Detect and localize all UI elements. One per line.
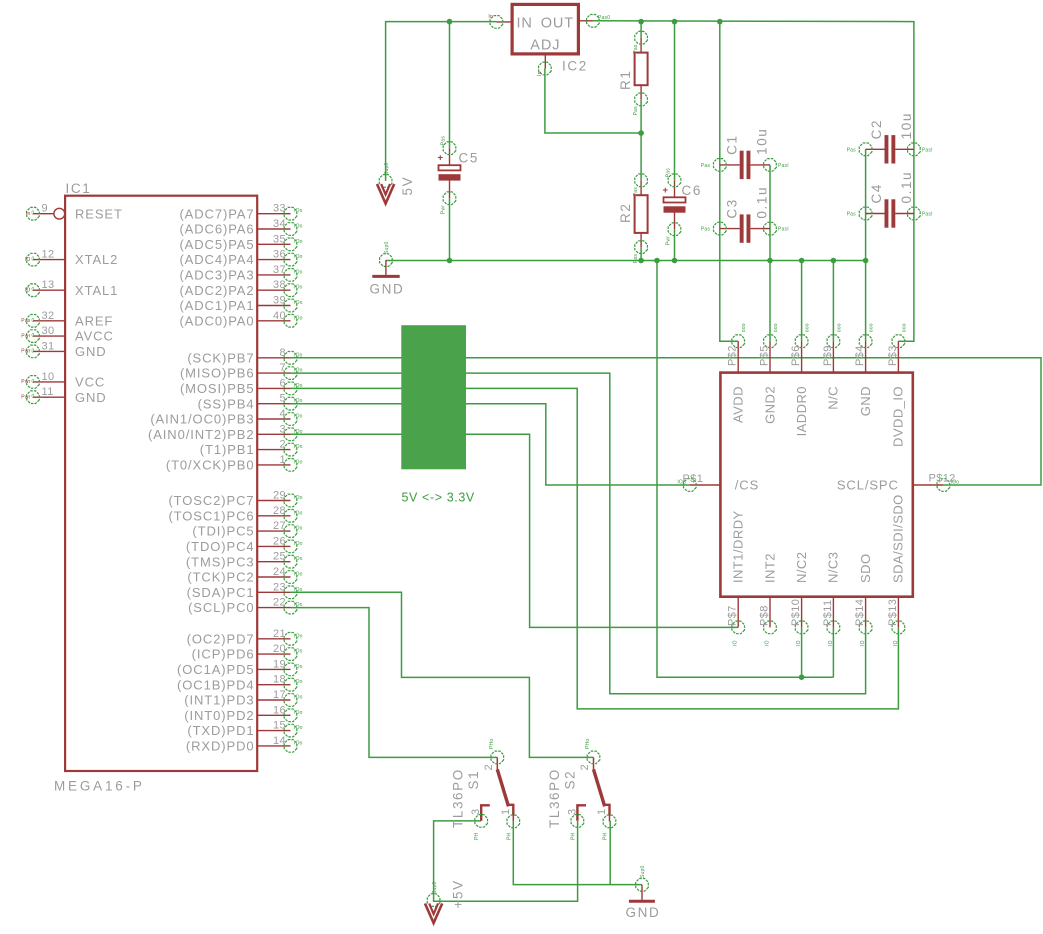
svg-text:N/C2: N/C2 bbox=[794, 552, 809, 583]
label GND (bottom right) bbox=[626, 905, 661, 920]
svg-text:(ADC7)PA7: (ADC7)PA7 bbox=[179, 206, 254, 221]
wire net GND: C2/C4 left rail down to sensor GND pin bbox=[865, 149, 867, 341]
svg-text:ooo: ooo bbox=[741, 323, 747, 332]
pin P$14 SDO of sensor (bottom) bbox=[854, 553, 873, 646]
pin 30 AVCC of IC1 (left) bbox=[21, 325, 113, 344]
capacitor C6 electrolytic bbox=[662, 168, 685, 245]
svg-text:C1: C1 bbox=[724, 134, 739, 154]
svg-text:AVCC: AVCC bbox=[75, 329, 114, 344]
svg-text:AVDD: AVDD bbox=[731, 386, 746, 423]
svg-text:+5V: +5V bbox=[451, 879, 466, 908]
svg-text:IOo: IOo bbox=[294, 526, 303, 532]
svg-text:ooo: ooo bbox=[901, 323, 907, 332]
svg-text:0: 0 bbox=[32, 318, 35, 324]
svg-text:GND: GND bbox=[75, 344, 107, 359]
svg-text:IC1: IC1 bbox=[66, 181, 92, 196]
svg-text:IOo: IOo bbox=[294, 710, 303, 716]
svg-text:IO: IO bbox=[796, 640, 802, 646]
pin 9 RESET of IC1 (left) bbox=[26, 203, 123, 222]
pin 24 (TCK)PC2 of IC1 (right) bbox=[187, 566, 302, 585]
pin P$4 GND of sensor (top) bbox=[854, 323, 875, 416]
svg-text:IOo: IOo bbox=[294, 572, 303, 578]
wire net 3V3: riser to R1 top bbox=[640, 22, 642, 38]
pin 13 XTAL1 of IC1 (left) bbox=[25, 279, 118, 298]
svg-text:INT1/DRDY: INT1/DRDY bbox=[731, 510, 746, 583]
svg-text:In: In bbox=[537, 71, 543, 76]
pin 39 (ADC1)PA1 of IC1 (right) bbox=[179, 295, 302, 314]
svg-text:GND: GND bbox=[858, 386, 873, 416]
svg-text:IOo: IOo bbox=[294, 398, 303, 404]
wire net 3V3: riser to C6 + bbox=[674, 22, 676, 181]
svg-text:IOo: IOo bbox=[294, 602, 303, 608]
label C4 value 0.1u bbox=[899, 171, 914, 204]
pin P$1 /CS of sensor (left) bbox=[677, 473, 759, 493]
pin 31 GND of IC1 (left) bbox=[21, 340, 106, 359]
svg-text:IOo: IOo bbox=[294, 414, 303, 420]
svg-text:IO: IO bbox=[25, 257, 31, 263]
svg-text:0: 0 bbox=[32, 333, 35, 339]
svg-text:IOo: IOo bbox=[294, 679, 303, 685]
pin 38 (ADC2)PA2 of IC1 (right) bbox=[179, 279, 302, 298]
svg-text:Sup0: Sup0 bbox=[384, 163, 390, 175]
svg-text:GND: GND bbox=[75, 390, 107, 405]
svg-text:(ADC6)PA6: (ADC6)PA6 bbox=[179, 222, 254, 237]
svg-text:Pas: Pas bbox=[441, 136, 447, 146]
wire net GND: C5 bottom riser bbox=[449, 198, 451, 260]
wire net GND: IADDR0 riser bbox=[801, 261, 803, 342]
svg-text:OUT: OUT bbox=[541, 16, 574, 32]
pin 16 (INT0)PD2 of IC1 (right) bbox=[184, 704, 302, 723]
svg-text:ooo: ooo bbox=[805, 323, 811, 332]
junction node GND/IADDR0 bbox=[799, 258, 805, 264]
label C2 reference bbox=[869, 119, 884, 139]
svg-text:(T0/XCK)PB0: (T0/XCK)PB0 bbox=[166, 458, 255, 473]
label C3 value 0.1u bbox=[754, 186, 769, 219]
svg-text:33: 33 bbox=[273, 203, 286, 215]
wire net SCL: IC1 PC0 to switch S1 pin2 bbox=[291, 608, 498, 758]
svg-text:P$6: P$6 bbox=[790, 345, 802, 366]
label C1 value 10u bbox=[754, 128, 769, 155]
wire net GND: C1/C3 right rail to sensor GND2 bbox=[769, 165, 771, 341]
svg-text:(SCL)PC0: (SCL)PC0 bbox=[188, 600, 254, 615]
wire net 5V: input rail from 5V supply to IC2 IN and C5 top bbox=[386, 22, 497, 181]
svg-text:SDA/SDI/SDO: SDA/SDI/SDO bbox=[891, 494, 906, 583]
svg-text:24: 24 bbox=[273, 566, 286, 578]
svg-text:/CS: /CS bbox=[735, 478, 759, 493]
svg-text:10u: 10u bbox=[899, 112, 914, 139]
supply +5V arrow (bottom) bbox=[425, 882, 442, 923]
svg-text:GND2: GND2 bbox=[762, 386, 777, 424]
svg-text:P$4: P$4 bbox=[854, 345, 866, 366]
svg-text:SCL/SPC: SCL/SPC bbox=[837, 478, 899, 493]
svg-text:(TOSC1)PC6: (TOSC1)PC6 bbox=[168, 508, 254, 523]
svg-text:(AIN0/INT2)PB2: (AIN0/INT2)PB2 bbox=[148, 427, 255, 442]
svg-text:Pwr: Pwr bbox=[21, 333, 30, 339]
label IC2 reference bbox=[562, 59, 588, 74]
svg-text:S1: S1 bbox=[466, 770, 481, 790]
svg-text:3: 3 bbox=[470, 808, 482, 815]
svg-text:IO: IO bbox=[733, 640, 739, 646]
svg-text:21: 21 bbox=[273, 628, 286, 640]
wire net MOSI: IC1 PB5 to sensor SDA/SDI/SDO bbox=[291, 388, 899, 709]
svg-text:4: 4 bbox=[279, 408, 286, 420]
svg-text:2: 2 bbox=[483, 764, 495, 771]
svg-text:40: 40 bbox=[273, 310, 286, 322]
svg-text:16: 16 bbox=[273, 704, 286, 716]
svg-text:28: 28 bbox=[273, 505, 286, 517]
svg-text:IO: IO bbox=[25, 287, 31, 293]
svg-text:14: 14 bbox=[273, 735, 286, 747]
svg-text:ADJ: ADJ bbox=[530, 38, 560, 54]
pin P$3 DVDD_IO of sensor (top) bbox=[887, 323, 908, 447]
svg-text:IOo: IOo bbox=[294, 368, 303, 374]
svg-text:PHo: PHo bbox=[585, 739, 591, 749]
wire net GND: drop to sensor N/C2 N/C3 pins bbox=[657, 261, 833, 678]
svg-text:IOo: IOo bbox=[294, 239, 303, 245]
label +5V bbox=[451, 879, 466, 908]
junction node 3V3/C6 bbox=[672, 19, 678, 25]
svg-text:18: 18 bbox=[273, 674, 286, 686]
wire net GND: N/C riser bbox=[832, 261, 834, 342]
svg-text:P$7: P$7 bbox=[727, 605, 739, 626]
svg-text:IO: IO bbox=[765, 640, 771, 646]
svg-text:P$3: P$3 bbox=[887, 345, 899, 366]
svg-text:(ADC5)PA5: (ADC5)PA5 bbox=[179, 237, 254, 252]
svg-text:S2: S2 bbox=[562, 770, 577, 790]
svg-text:Pwr: Pwr bbox=[441, 205, 447, 214]
svg-text:IOo: IOo bbox=[294, 429, 303, 435]
svg-text:IOo: IOo bbox=[294, 725, 303, 731]
ic U IC1 MEGA16-P body bbox=[65, 196, 257, 771]
svg-text:IOo: IOo bbox=[294, 541, 303, 547]
wire net ADJ: R1 bottom to R2 top bbox=[640, 99, 642, 180]
wire net SS: IC1 PB4 to sensor /CS bbox=[291, 404, 690, 485]
pin 2 (T1)PB1 of IC1 (right) bbox=[200, 439, 303, 458]
svg-text:P$10: P$10 bbox=[790, 599, 802, 626]
svg-text:37: 37 bbox=[273, 264, 286, 276]
ground GND symbol (bottom right) bbox=[629, 866, 655, 902]
svg-text:XTAL1: XTAL1 bbox=[75, 283, 118, 298]
wire net 3V3: AVDD rail down to sensor AVDD through C1 left bbox=[720, 22, 738, 342]
wire net SCK: IC1 PB7 to sensor SCL/SPC around right edge bbox=[291, 358, 1042, 485]
svg-text:(TDO)PC4: (TDO)PC4 bbox=[186, 539, 255, 554]
resistor R2 bbox=[633, 174, 648, 263]
junction node 3V3/R1 bbox=[638, 19, 644, 25]
svg-text:0.1u: 0.1u bbox=[899, 171, 914, 204]
svg-text:C5: C5 bbox=[459, 151, 479, 166]
svg-text:P$2: P$2 bbox=[727, 345, 739, 366]
svg-text:IOo: IOo bbox=[294, 224, 303, 230]
svg-text:1: 1 bbox=[596, 808, 608, 815]
svg-text:R1: R1 bbox=[618, 70, 633, 90]
svg-text:IADDR0: IADDR0 bbox=[794, 386, 809, 436]
svg-text:Sup0: Sup0 bbox=[384, 242, 390, 254]
label 5V bbox=[400, 176, 415, 196]
svg-text:23: 23 bbox=[273, 581, 286, 593]
svg-text:IOo: IOo bbox=[294, 208, 303, 214]
label S1 reference bbox=[466, 770, 481, 790]
svg-text:IOo: IOo bbox=[294, 254, 303, 260]
svg-text:INT2: INT2 bbox=[762, 553, 777, 583]
svg-text:P$5: P$5 bbox=[759, 345, 771, 366]
svg-text:22: 22 bbox=[273, 597, 286, 609]
svg-text:PH: PH bbox=[506, 832, 512, 840]
svg-text:(OC2)PD7: (OC2)PD7 bbox=[187, 631, 255, 646]
svg-text:10: 10 bbox=[42, 371, 55, 383]
svg-text:TL36PO: TL36PO bbox=[547, 768, 562, 828]
pin 4 (AIN1/OC0)PB3 of IC1 (right) bbox=[150, 408, 302, 427]
svg-text:13: 13 bbox=[42, 279, 55, 291]
svg-text:0: 0 bbox=[32, 211, 35, 217]
svg-text:(TCK)PC2: (TCK)PC2 bbox=[187, 570, 254, 585]
svg-text:IO: IO bbox=[860, 640, 866, 646]
svg-text:P$13: P$13 bbox=[887, 599, 899, 626]
wire net INT: IC1 PB2 to sensor INT1/DRDY bbox=[291, 434, 739, 627]
junction node GND/GND2 rail bbox=[767, 258, 773, 264]
label R2 reference bbox=[618, 203, 633, 223]
svg-text:0: 0 bbox=[32, 379, 35, 385]
svg-text:ooo: ooo bbox=[836, 323, 842, 332]
svg-text:(ADC3)PA3: (ADC3)PA3 bbox=[179, 268, 254, 283]
junction node ADJ divider bbox=[638, 130, 644, 136]
junction node GND/C5 bbox=[447, 258, 453, 264]
svg-text:Pwr: Pwr bbox=[21, 379, 30, 385]
wire net SDA: IC1 PC1 to switch S2 pin2 bbox=[291, 592, 594, 757]
svg-text:Pas: Pas bbox=[633, 187, 639, 197]
svg-text:IOo: IOo bbox=[294, 383, 303, 389]
svg-text:7: 7 bbox=[279, 362, 286, 374]
label IC1 reference bbox=[66, 181, 92, 196]
svg-text:5V <-> 3.3V: 5V <-> 3.3V bbox=[402, 491, 475, 505]
pin P$6 IADDR0 of sensor (top) bbox=[790, 323, 811, 436]
svg-text:(ADC0)PA0: (ADC0)PA0 bbox=[179, 313, 254, 328]
junction node GND/NC2 bbox=[799, 674, 805, 680]
junction node GND/R2 bbox=[638, 258, 644, 264]
ic U2 sensor body bbox=[720, 373, 912, 597]
label C5 reference bbox=[459, 151, 479, 166]
svg-text:0.1u: 0.1u bbox=[754, 186, 769, 219]
svg-text:PH: PH bbox=[570, 832, 576, 840]
pin 28 (TOSC1)PC6 of IC1 (right) bbox=[168, 505, 302, 524]
svg-text:(AIN1/OC0)PB3: (AIN1/OC0)PB3 bbox=[150, 412, 254, 427]
svg-text:19: 19 bbox=[273, 658, 286, 670]
svg-text:25: 25 bbox=[273, 551, 286, 563]
pin 10 VCC of IC1 (left) bbox=[21, 371, 105, 390]
svg-text:R2: R2 bbox=[618, 203, 633, 223]
pin P$13 SDA/SDI/SDO of sensor (bottom) bbox=[887, 494, 906, 646]
wire net MISO: IC1 PB6 to sensor SDO bbox=[291, 373, 866, 694]
wire net GND: horizontal ground bus bbox=[386, 260, 866, 262]
svg-text:IC2: IC2 bbox=[562, 59, 588, 74]
svg-text:(TXD)PD1: (TXD)PD1 bbox=[187, 723, 254, 738]
svg-text:PasI: PasI bbox=[778, 163, 789, 169]
svg-text:38: 38 bbox=[273, 279, 286, 291]
pin 6 (MOSI)PB5 of IC1 (right) bbox=[180, 377, 303, 396]
pin 11 GND of IC1 (left) bbox=[21, 386, 106, 405]
label R1 reference bbox=[618, 70, 633, 90]
svg-text:Sup0: Sup0 bbox=[640, 866, 646, 878]
wire net GND2: S1 pin1 and S2 pin1 to GND symbol bbox=[513, 821, 642, 885]
svg-text:IOo: IOo bbox=[294, 315, 303, 321]
pin 37 (ADC3)PA3 of IC1 (right) bbox=[179, 264, 302, 283]
svg-text:27: 27 bbox=[273, 520, 286, 532]
svg-text:ooo: ooo bbox=[869, 323, 875, 332]
svg-text:IOo: IOo bbox=[294, 633, 303, 639]
svg-text:N/C3: N/C3 bbox=[826, 552, 841, 583]
svg-text:IOo: IOo bbox=[294, 444, 303, 450]
svg-text:IOo: IOo bbox=[294, 285, 303, 291]
junction node 5V at C5 riser bbox=[447, 19, 453, 25]
svg-text:Pas: Pas bbox=[701, 227, 711, 233]
svg-text:(OC1A)PD5: (OC1A)PD5 bbox=[177, 662, 254, 677]
level shifter block 5V to 3.3V bbox=[401, 325, 466, 469]
svg-text:10u: 10u bbox=[754, 128, 769, 155]
label IC1 value MEGA16-P bbox=[54, 779, 145, 794]
switch S1 TL36PO bbox=[470, 739, 519, 840]
pin 36 (ADC4)PA4 of IC1 (right) bbox=[179, 249, 302, 268]
pin 3 (AIN0/INT2)PB2 of IC1 (right) bbox=[148, 423, 303, 442]
svg-text:IOo: IOo bbox=[294, 664, 303, 670]
wire net GND: C6 bottom riser bbox=[674, 229, 676, 260]
label S1 value TL36PO bbox=[451, 768, 466, 828]
svg-text:0: 0 bbox=[32, 257, 35, 263]
svg-text:PH: PH bbox=[603, 832, 609, 840]
pin 8 (SCK)PB7 of IC1 (right) bbox=[187, 347, 302, 366]
svg-text:C2: C2 bbox=[869, 119, 884, 139]
pin 14 (RXD)PD0 of IC1 (right) bbox=[186, 735, 303, 754]
svg-text:39: 39 bbox=[273, 295, 286, 307]
svg-text:PasI: PasI bbox=[778, 227, 789, 233]
svg-text:VCC: VCC bbox=[75, 375, 105, 390]
svg-text:IOo: IOo bbox=[294, 269, 303, 275]
svg-text:(SCK)PB7: (SCK)PB7 bbox=[187, 350, 254, 365]
svg-text:N/C: N/C bbox=[826, 386, 841, 410]
ic IC2 voltage regulator body bbox=[512, 4, 578, 54]
svg-text:(T1)PB1: (T1)PB1 bbox=[200, 442, 255, 457]
junction node GND/C6 bbox=[672, 258, 678, 264]
svg-text:(ADC1)PA1: (ADC1)PA1 bbox=[179, 298, 254, 313]
svg-text:Pas0: Pas0 bbox=[598, 15, 610, 21]
pin P$2 AVDD of sensor (top) bbox=[727, 323, 748, 423]
pin 17 (INT1)PD3 of IC1 (right) bbox=[184, 689, 302, 708]
pin 27 (TDI)PC5 of IC1 (right) bbox=[192, 520, 302, 539]
svg-text:C4: C4 bbox=[869, 183, 884, 203]
svg-text:IOo: IOo bbox=[294, 587, 303, 593]
label GND (top left) bbox=[370, 282, 405, 297]
capacitor C1 10u bbox=[701, 151, 789, 179]
svg-text:26: 26 bbox=[273, 535, 286, 547]
pin 18 (OC1B)PD4 of IC1 (right) bbox=[177, 674, 303, 693]
svg-text:IOo: IOo bbox=[294, 649, 303, 655]
capacitor C4 0.1u bbox=[847, 199, 933, 227]
svg-text:(ICP)PD6: (ICP)PD6 bbox=[192, 647, 255, 662]
capacitor C5 electrolytic bbox=[437, 136, 460, 215]
svg-text:0: 0 bbox=[32, 394, 35, 400]
svg-text:(RXD)PD0: (RXD)PD0 bbox=[186, 739, 255, 754]
capacitor C3 0.1u bbox=[701, 214, 789, 242]
svg-text:20: 20 bbox=[273, 643, 286, 655]
pin 33 (ADC7)PA7 of IC1 (right) bbox=[179, 203, 302, 222]
svg-text:IN: IN bbox=[517, 16, 533, 32]
svg-text:11: 11 bbox=[42, 386, 54, 398]
svg-text:PHo: PHo bbox=[489, 739, 495, 749]
svg-text:30: 30 bbox=[42, 325, 55, 337]
svg-text:15: 15 bbox=[273, 720, 286, 732]
ground GND symbol (top left) bbox=[372, 242, 399, 277]
svg-text:9: 9 bbox=[42, 203, 49, 215]
pin 1 (T0/XCK)PB0 of IC1 (right) bbox=[166, 454, 303, 473]
svg-text:Pas: Pas bbox=[633, 254, 639, 264]
label C6 reference bbox=[682, 183, 702, 198]
svg-text:IOo: IOo bbox=[294, 695, 303, 701]
pin ADJ of IC2 bbox=[530, 38, 560, 77]
svg-text:P$14: P$14 bbox=[854, 599, 866, 626]
svg-text:DVDD_IO: DVDD_IO bbox=[891, 386, 906, 447]
svg-text:Pwr: Pwr bbox=[21, 349, 30, 355]
wire net GND: R2 bottom riser bbox=[640, 247, 642, 260]
svg-text:P$8: P$8 bbox=[759, 605, 771, 626]
svg-text:2: 2 bbox=[279, 439, 286, 451]
svg-text:17: 17 bbox=[273, 689, 286, 701]
svg-text:Pwr: Pwr bbox=[666, 236, 672, 245]
junction node GND drop bbox=[654, 258, 660, 264]
pin 15 (TXD)PD1 of IC1 (right) bbox=[187, 720, 302, 739]
wire net ADJ: IC2 ADJ to R1/R2 divider bbox=[545, 69, 641, 134]
junction node 3V3/AVDD rail bbox=[717, 19, 723, 25]
label S2 value TL36PO bbox=[547, 768, 562, 828]
svg-text:AREF: AREF bbox=[75, 313, 113, 328]
svg-text:(TDI)PC5: (TDI)PC5 bbox=[192, 524, 254, 539]
svg-text:Sup0: Sup0 bbox=[432, 882, 438, 894]
svg-text:(OC1B)PD4: (OC1B)PD4 bbox=[177, 677, 254, 692]
svg-text:PasI: PasI bbox=[922, 212, 933, 218]
pin P$9 N/C of sensor (top) bbox=[822, 323, 843, 410]
svg-text:Pas: Pas bbox=[847, 212, 857, 218]
svg-text:36: 36 bbox=[273, 249, 286, 261]
svg-text:RESET: RESET bbox=[75, 206, 123, 221]
svg-text:Pas: Pas bbox=[666, 168, 672, 178]
svg-text:PH: PH bbox=[474, 832, 480, 840]
pin P$7 INT1/DRDY of sensor (bottom) bbox=[727, 510, 746, 646]
svg-text:+: + bbox=[662, 185, 668, 196]
svg-text:IOo: IOo bbox=[294, 495, 303, 501]
svg-text:GND: GND bbox=[626, 905, 661, 920]
svg-text:(TOSC2)PC7: (TOSC2)PC7 bbox=[168, 493, 254, 508]
pin 12 XTAL2 of IC1 (left) bbox=[25, 249, 118, 268]
svg-text:TL36PO: TL36PO bbox=[451, 768, 466, 828]
pin P$8 INT2 of sensor (bottom) bbox=[759, 553, 778, 646]
svg-text:PasI: PasI bbox=[922, 147, 933, 153]
junction node GND/C2C4 bbox=[863, 258, 869, 264]
svg-text:In: In bbox=[488, 14, 493, 20]
pin 32 AREF of IC1 (left) bbox=[21, 310, 113, 329]
svg-text:+: + bbox=[437, 153, 443, 164]
svg-text:MEGA16-P: MEGA16-P bbox=[54, 779, 145, 794]
svg-text:IOo: IOo bbox=[677, 480, 686, 486]
svg-text:31: 31 bbox=[42, 340, 55, 352]
junction node GND/NC bbox=[831, 258, 837, 264]
svg-text:(MOSI)PB5: (MOSI)PB5 bbox=[180, 381, 255, 396]
svg-text:IOo: IOo bbox=[294, 740, 303, 746]
label C1 reference bbox=[724, 134, 739, 154]
svg-text:IOo: IOo bbox=[294, 300, 303, 306]
svg-text:IO: IO bbox=[893, 640, 899, 646]
svg-text:Pas: Pas bbox=[633, 44, 639, 54]
label C3 reference bbox=[724, 198, 739, 218]
pin 40 (ADC0)PA0 of IC1 (right) bbox=[179, 310, 302, 329]
svg-text:1: 1 bbox=[500, 808, 512, 815]
svg-text:8: 8 bbox=[279, 347, 286, 359]
